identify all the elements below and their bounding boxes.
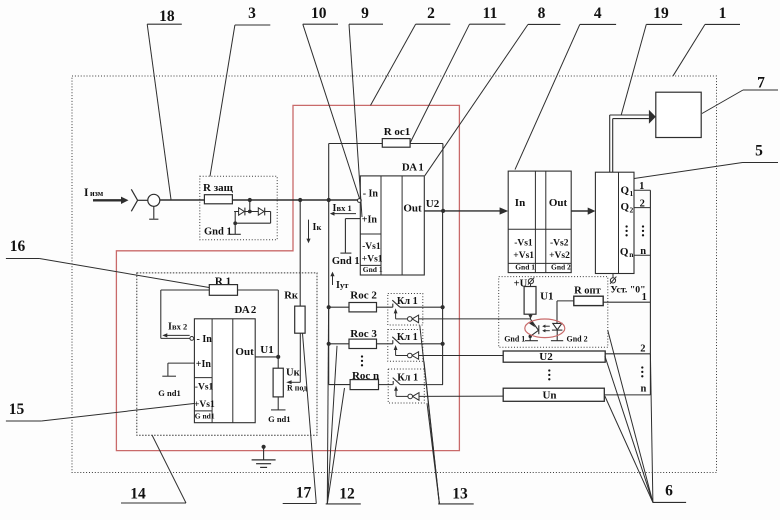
svg-text:2: 2 bbox=[640, 198, 645, 209]
svg-text:U2: U2 bbox=[426, 198, 440, 210]
svg-text:Uк: Uк bbox=[286, 368, 301, 379]
svg-text:Un: Un bbox=[542, 390, 556, 402]
svg-text:n: n bbox=[640, 384, 646, 395]
svg-text:-Vs1: -Vs1 bbox=[514, 239, 533, 249]
svg-text:15: 15 bbox=[9, 401, 25, 418]
svg-text:18: 18 bbox=[159, 8, 175, 25]
svg-text:Rк: Rк bbox=[284, 290, 299, 301]
svg-text:Gnd 1: Gnd 1 bbox=[515, 262, 535, 271]
svg-text:Roc 3: Roc 3 bbox=[350, 328, 377, 340]
svg-text:U1: U1 bbox=[540, 290, 553, 302]
svg-text:U2: U2 bbox=[539, 351, 553, 363]
svg-text:+Vs1: +Vs1 bbox=[362, 255, 383, 265]
svg-text:вх 1: вх 1 bbox=[337, 203, 352, 213]
svg-text:2: 2 bbox=[640, 343, 645, 354]
svg-text:In: In bbox=[515, 197, 525, 209]
svg-text:Gnd 1: Gnd 1 bbox=[332, 256, 360, 267]
svg-text:G nd1: G nd1 bbox=[158, 388, 180, 398]
svg-text:Out: Out bbox=[403, 202, 422, 214]
svg-text:4: 4 bbox=[594, 5, 602, 22]
svg-text:3: 3 bbox=[248, 5, 256, 22]
svg-text:Roc 2: Roc 2 bbox=[350, 290, 377, 302]
svg-text:изм: изм bbox=[90, 189, 104, 198]
svg-text:Кл 1: Кл 1 bbox=[397, 332, 418, 343]
svg-text:Q: Q bbox=[621, 185, 630, 197]
svg-text:+In: +In bbox=[196, 359, 212, 370]
svg-text:8: 8 bbox=[538, 5, 546, 22]
svg-text:Q: Q bbox=[620, 246, 629, 258]
svg-text:Кл 1: Кл 1 bbox=[397, 296, 418, 307]
svg-text:DA 2: DA 2 bbox=[234, 304, 256, 316]
svg-text:Кл 1: Кл 1 bbox=[397, 373, 418, 384]
svg-text:-Vs1: -Vs1 bbox=[362, 242, 381, 252]
svg-text:R под: R под bbox=[287, 383, 307, 392]
svg-text:13: 13 bbox=[452, 486, 468, 503]
svg-text:- In: - In bbox=[197, 334, 213, 345]
svg-text:G nd1: G nd1 bbox=[195, 412, 215, 421]
svg-text:ут: ут bbox=[340, 280, 349, 290]
svg-text:1: 1 bbox=[642, 292, 647, 303]
svg-text:n: n bbox=[640, 246, 646, 257]
svg-text:6: 6 bbox=[665, 483, 673, 500]
svg-text:11: 11 bbox=[483, 5, 498, 22]
svg-text:Gnd 1: Gnd 1 bbox=[504, 334, 525, 343]
svg-text:- In: - In bbox=[363, 188, 379, 199]
svg-text:10: 10 bbox=[311, 5, 327, 22]
svg-text:2: 2 bbox=[427, 5, 435, 22]
svg-text:Gnd 2: Gnd 2 bbox=[551, 262, 571, 271]
svg-text:2: 2 bbox=[630, 206, 634, 215]
svg-text:1: 1 bbox=[719, 5, 727, 22]
svg-text:-Vs2: -Vs2 bbox=[550, 239, 569, 249]
svg-text:+In: +In bbox=[362, 215, 378, 226]
svg-text:DA 1: DA 1 bbox=[402, 161, 424, 173]
svg-text:Q: Q bbox=[621, 201, 630, 213]
svg-text:R oc1: R oc1 bbox=[384, 126, 411, 138]
svg-text:7: 7 bbox=[757, 75, 765, 92]
svg-text:R защ: R защ bbox=[203, 182, 234, 194]
svg-text:19: 19 bbox=[653, 5, 669, 22]
svg-text:Уст. "0": Уст. "0" bbox=[610, 285, 645, 296]
svg-text:Out: Out bbox=[549, 197, 568, 209]
svg-text:14: 14 bbox=[130, 486, 146, 503]
svg-text:вх 2: вх 2 bbox=[172, 321, 187, 331]
svg-text:12: 12 bbox=[339, 486, 355, 503]
svg-text:5: 5 bbox=[755, 143, 763, 160]
svg-text:G nd1: G nd1 bbox=[268, 414, 290, 424]
svg-text:17: 17 bbox=[296, 485, 312, 502]
svg-text:9: 9 bbox=[361, 5, 369, 22]
svg-text:+Vs1: +Vs1 bbox=[513, 251, 534, 261]
svg-text:1: 1 bbox=[630, 189, 634, 198]
svg-text:Gnd 1: Gnd 1 bbox=[363, 265, 383, 274]
svg-text:I: I bbox=[84, 187, 89, 199]
svg-text:Out: Out bbox=[235, 346, 254, 358]
svg-text:R опт: R опт bbox=[574, 285, 602, 296]
svg-text:Gnd 1: Gnd 1 bbox=[204, 227, 232, 238]
svg-text:+Vs2: +Vs2 bbox=[549, 251, 570, 261]
svg-text:1: 1 bbox=[639, 181, 644, 192]
svg-text:к: к bbox=[317, 222, 322, 232]
svg-text:Gnd 2: Gnd 2 bbox=[567, 334, 588, 343]
svg-text:16: 16 bbox=[10, 238, 26, 255]
svg-text:U1: U1 bbox=[260, 344, 273, 356]
svg-text:-Vs1: -Vs1 bbox=[195, 382, 214, 392]
svg-text:+Vs1: +Vs1 bbox=[194, 400, 215, 410]
